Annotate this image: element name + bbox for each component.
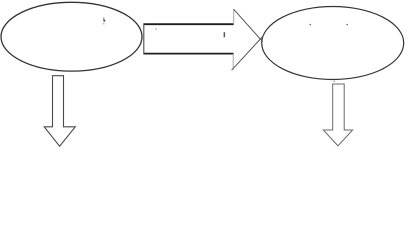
right block arrow shaft bottom edge	[144, 53, 234, 55]
right block arrow head top diagonal	[234, 9, 263, 42]
right down arrow	[323, 84, 352, 146]
right block arrow head bottom diagonal	[232, 37, 263, 71]
right block arrow shaft left edge	[143, 23, 145, 54]
artifact dot in arrow shaft left	[156, 28, 157, 29]
artifact dot in right ellipse right	[347, 24, 348, 25]
right ellipse	[262, 7, 404, 80]
artifact dot below right ellipse arc	[334, 81, 335, 82]
artifact dot under glyph	[103, 23, 104, 24]
right block arrow head back edge upper	[233, 9, 235, 24]
left ellipse	[1, 2, 142, 71]
artifact dot in right ellipse left	[310, 24, 311, 25]
right block arrow shaft top edge	[144, 23, 234, 25]
right block arrow head back edge lower	[232, 54, 234, 70]
left down arrow	[44, 76, 75, 147]
artifact tick in arrow shaft right	[224, 32, 226, 37]
artifact glyph in left ellipse	[103, 18, 105, 22]
